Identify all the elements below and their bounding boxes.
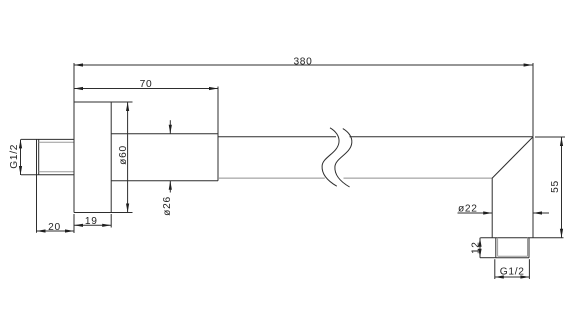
svg-text:G1/2: G1/2 [9,144,20,169]
svg-text:G1/2: G1/2 [500,266,525,277]
svg-text:55: 55 [550,180,561,193]
svg-text:19: 19 [85,216,98,227]
svg-text:380: 380 [293,56,312,67]
svg-text:ø26: ø26 [162,196,173,216]
svg-text:ø22: ø22 [458,204,478,215]
svg-text:20: 20 [48,222,61,233]
svg-text:70: 70 [140,79,153,90]
svg-text:ø60: ø60 [118,145,129,165]
svg-text:12: 12 [471,241,482,254]
